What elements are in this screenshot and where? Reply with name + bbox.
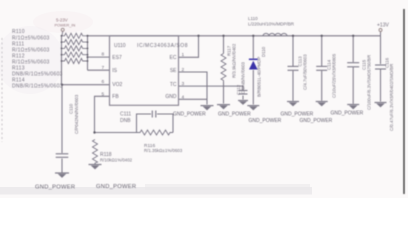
svg-text:2: 2: [182, 67, 185, 73]
wire C113 drop: [292, 36, 294, 66]
ground under C112: [238, 101, 248, 105]
text chip right pin labels: [165, 55, 177, 100]
svg-text:5: 5: [102, 92, 105, 98]
ground under C116: [375, 103, 387, 107]
diode D110: [249, 59, 258, 69]
svg-text:R/3.9kΩ/NV/0402: R/3.9kΩ/NV/0402: [232, 43, 237, 78]
text GND_POWER labels bottom: [35, 184, 136, 190]
capacitor C110: [56, 154, 69, 158]
wire C111 parallel loop: [137, 114, 152, 133]
svg-text:C/10uF/25V/X5R/0805: C/10uF/25V/X5R/0805: [332, 53, 337, 98]
svg-text:B/RB051L-40/PMDP: B/RB051L-40/PMDP: [256, 57, 261, 97]
svg-text:R114: R114: [12, 78, 25, 84]
wire pin5 FB: [95, 96, 110, 132]
wire C113 to ground: [292, 71, 294, 101]
text L110 label: [248, 16, 295, 26]
svg-text:R110: R110: [12, 29, 25, 35]
svg-text:ES7: ES7: [112, 55, 122, 61]
text C112 vertical label: [236, 61, 246, 95]
resistor R118: [93, 140, 98, 164]
svg-text:SE: SE: [170, 68, 177, 74]
node FB feedback junction: [93, 131, 95, 133]
svg-text:IS: IS: [112, 68, 117, 74]
wire pin6 VCC: [62, 84, 110, 86]
svg-text:IC/MC34063A/SO8: IC/MC34063A/SO8: [137, 43, 188, 49]
text GND_POWER labels row A: [173, 110, 364, 117]
capacitor C114: [316, 66, 327, 70]
resistor R110: [62, 33, 88, 38]
svg-text:GND_POWER: GND_POWER: [218, 112, 251, 118]
node R117 rail tap: [222, 35, 224, 37]
node resistor bank right rail junctions: [87, 41, 89, 62]
wire R116 feedback row: [95, 132, 137, 134]
resistor R117: [221, 54, 226, 83]
svg-text:C/4.7uF/50V/0603: C/4.7uF/50V/0603: [303, 54, 308, 90]
resistor R111: [62, 40, 88, 45]
svg-text:DNB: DNB: [120, 118, 131, 124]
svg-text:+13V: +13V: [377, 22, 389, 28]
wire C116 to ground: [380, 70, 382, 102]
node C113 rail tap: [292, 35, 294, 37]
ground under R118: [89, 165, 102, 169]
svg-text:1: 1: [182, 52, 185, 58]
svg-text:C/100uF/6.3V/SMD5750/BR: C/100uF/6.3V/SMD5750/BR: [367, 55, 372, 110]
svg-text:GND_POWER: GND_POWER: [281, 112, 314, 118]
wire C110 to ground: [61, 159, 63, 173]
capacitor C112: [239, 91, 248, 95]
text left resistor label stack: [12, 29, 63, 89]
wire C112 to ground: [242, 96, 244, 100]
svg-text:C111: C111: [120, 111, 131, 117]
node EC wire to rail junction: [197, 35, 199, 37]
wire input left rail: [61, 36, 63, 85]
node VCC / C110 junction: [61, 84, 63, 86]
text chip left pin labels: [112, 55, 122, 100]
svg-text:R111: R111: [12, 41, 24, 47]
svg-text:7: 7: [102, 65, 105, 71]
svg-text:R/10kΩ1%/0402: R/10kΩ1%/0402: [100, 158, 133, 163]
text C110 vertical label: [69, 94, 79, 134]
node +13V terminal circle: [379, 29, 382, 32]
faint page tint bands: [33, 11, 93, 33]
svg-text:8: 8: [102, 52, 105, 58]
svg-text:DNB/R/1Ω±5%/0603: DNB/R/1Ω±5%/0603: [12, 84, 63, 90]
resistor R114: [62, 58, 88, 63]
text C116 vertical label: [385, 57, 395, 131]
capacitor C115: [347, 63, 359, 67]
text right pin numbers: [182, 52, 185, 101]
wire R117 drop: [223, 36, 225, 54]
svg-text:C/P042NN/NV/0603: C/P042NN/NV/0603: [74, 94, 79, 134]
svg-text:D110: D110: [261, 46, 266, 57]
svg-text:GND_POWER: GND_POWER: [35, 184, 75, 190]
text R118 label: [100, 152, 133, 163]
svg-text:C110: C110: [69, 103, 74, 114]
svg-text:GND_POWER: GND_POWER: [331, 110, 364, 116]
svg-text:4: 4: [182, 95, 185, 101]
text R116 label: [144, 143, 183, 153]
svg-text:EC: EC: [170, 55, 177, 61]
text C114 vertical label: [327, 53, 337, 98]
wire D110 anode to ground: [252, 70, 254, 105]
svg-text:VO2: VO2: [112, 82, 122, 88]
svg-text:POWER_IN: POWER_IN: [55, 22, 76, 27]
IC U110 MC34063A/SO8 body: [110, 36, 179, 105]
text GND_POWER labels row B: [249, 118, 333, 124]
wire C114 to ground: [321, 71, 323, 101]
capacitor C111: [152, 111, 156, 118]
wire C116 drop: [380, 36, 382, 64]
frame right border: [403, 9, 405, 194]
wire SE pin2 to ground: [179, 72, 208, 105]
ground under C113: [287, 102, 299, 106]
wire R118 to ground: [94, 163, 96, 164]
wire C114 drop: [321, 36, 323, 66]
text left pin numbers: [102, 52, 105, 98]
resistor R116: [137, 130, 174, 135]
capacitor C116: [375, 65, 386, 69]
text R117 vertical label: [227, 43, 237, 78]
svg-text:L/220uH/10%/MDP/BR: L/220uH/10%/MDP/BR: [248, 21, 295, 26]
wire TC pin3: [179, 86, 244, 90]
svg-text:GND_POWER: GND_POWER: [173, 112, 206, 118]
wire pin7: [88, 69, 110, 71]
wire C111 right side: [157, 114, 173, 133]
ground under C110: [55, 173, 69, 177]
wire GND pin4: [179, 98, 208, 100]
wire C115 drop: [352, 36, 354, 62]
ground under D110: [247, 106, 259, 110]
svg-text:R112: R112: [12, 53, 25, 59]
inductor L110: [263, 33, 287, 35]
svg-text:C/DNB/NV/0603: C/DNB/NV/0603: [241, 61, 246, 94]
wire resistor bank right rail: [87, 36, 89, 70]
ground under R117: [217, 105, 230, 109]
text D110 vertical label: [256, 46, 266, 97]
svg-text:U110: U110: [114, 43, 126, 49]
ground under SE/GND pins: [201, 106, 214, 110]
node C115 rail tap: [352, 35, 354, 37]
wire main top rail: [88, 35, 381, 37]
wire pin8: [88, 56, 110, 58]
svg-text:FB: FB: [112, 94, 119, 100]
text C115 vertical label: [362, 55, 372, 110]
text 5-23V POWER_IN: [55, 17, 76, 27]
svg-text:3: 3: [182, 81, 185, 87]
svg-text:TC: TC: [170, 82, 177, 88]
node POWER_IN terminal: [61, 28, 64, 31]
node +13V terminal: [380, 31, 382, 36]
node bank to pin8 tap: [87, 35, 89, 58]
wire R117 to ground: [223, 82, 225, 104]
svg-text:GND_POWER: GND_POWER: [96, 184, 136, 190]
node D110 rail tap: [252, 35, 254, 37]
text C111 DNB label: [120, 111, 131, 124]
svg-text:C/0.47uF/6.3V/X5R/0402/SMD/BR: C/0.47uF/6.3V/X5R/0402/SMD/BR: [389, 64, 394, 131]
wire C110 drop: [61, 85, 63, 153]
text C113 vertical label: [298, 54, 308, 90]
wire D110 cathode: [252, 36, 254, 59]
node resistor bank left rail junctions: [61, 35, 63, 62]
wire C115 to ground: [352, 67, 354, 104]
svg-text:R113: R113: [12, 66, 25, 72]
wire EC pin1: [179, 36, 199, 58]
node C114 rail tap: [321, 35, 323, 37]
svg-text:R/1.35kΩ±1%/0603: R/1.35kΩ±1%/0603: [144, 148, 183, 153]
svg-text:GND_POWER: GND_POWER: [300, 118, 333, 124]
ground under C114: [316, 102, 328, 106]
resistor R112: [62, 46, 88, 51]
frame left dashed border: [1, 38, 3, 142]
svg-text:GND: GND: [165, 94, 177, 100]
svg-text:GND_POWER: GND_POWER: [249, 118, 282, 124]
svg-text:6: 6: [102, 79, 105, 85]
capacitor C113: [288, 66, 299, 70]
resistor R113: [62, 52, 88, 57]
ground under C115: [347, 105, 359, 109]
